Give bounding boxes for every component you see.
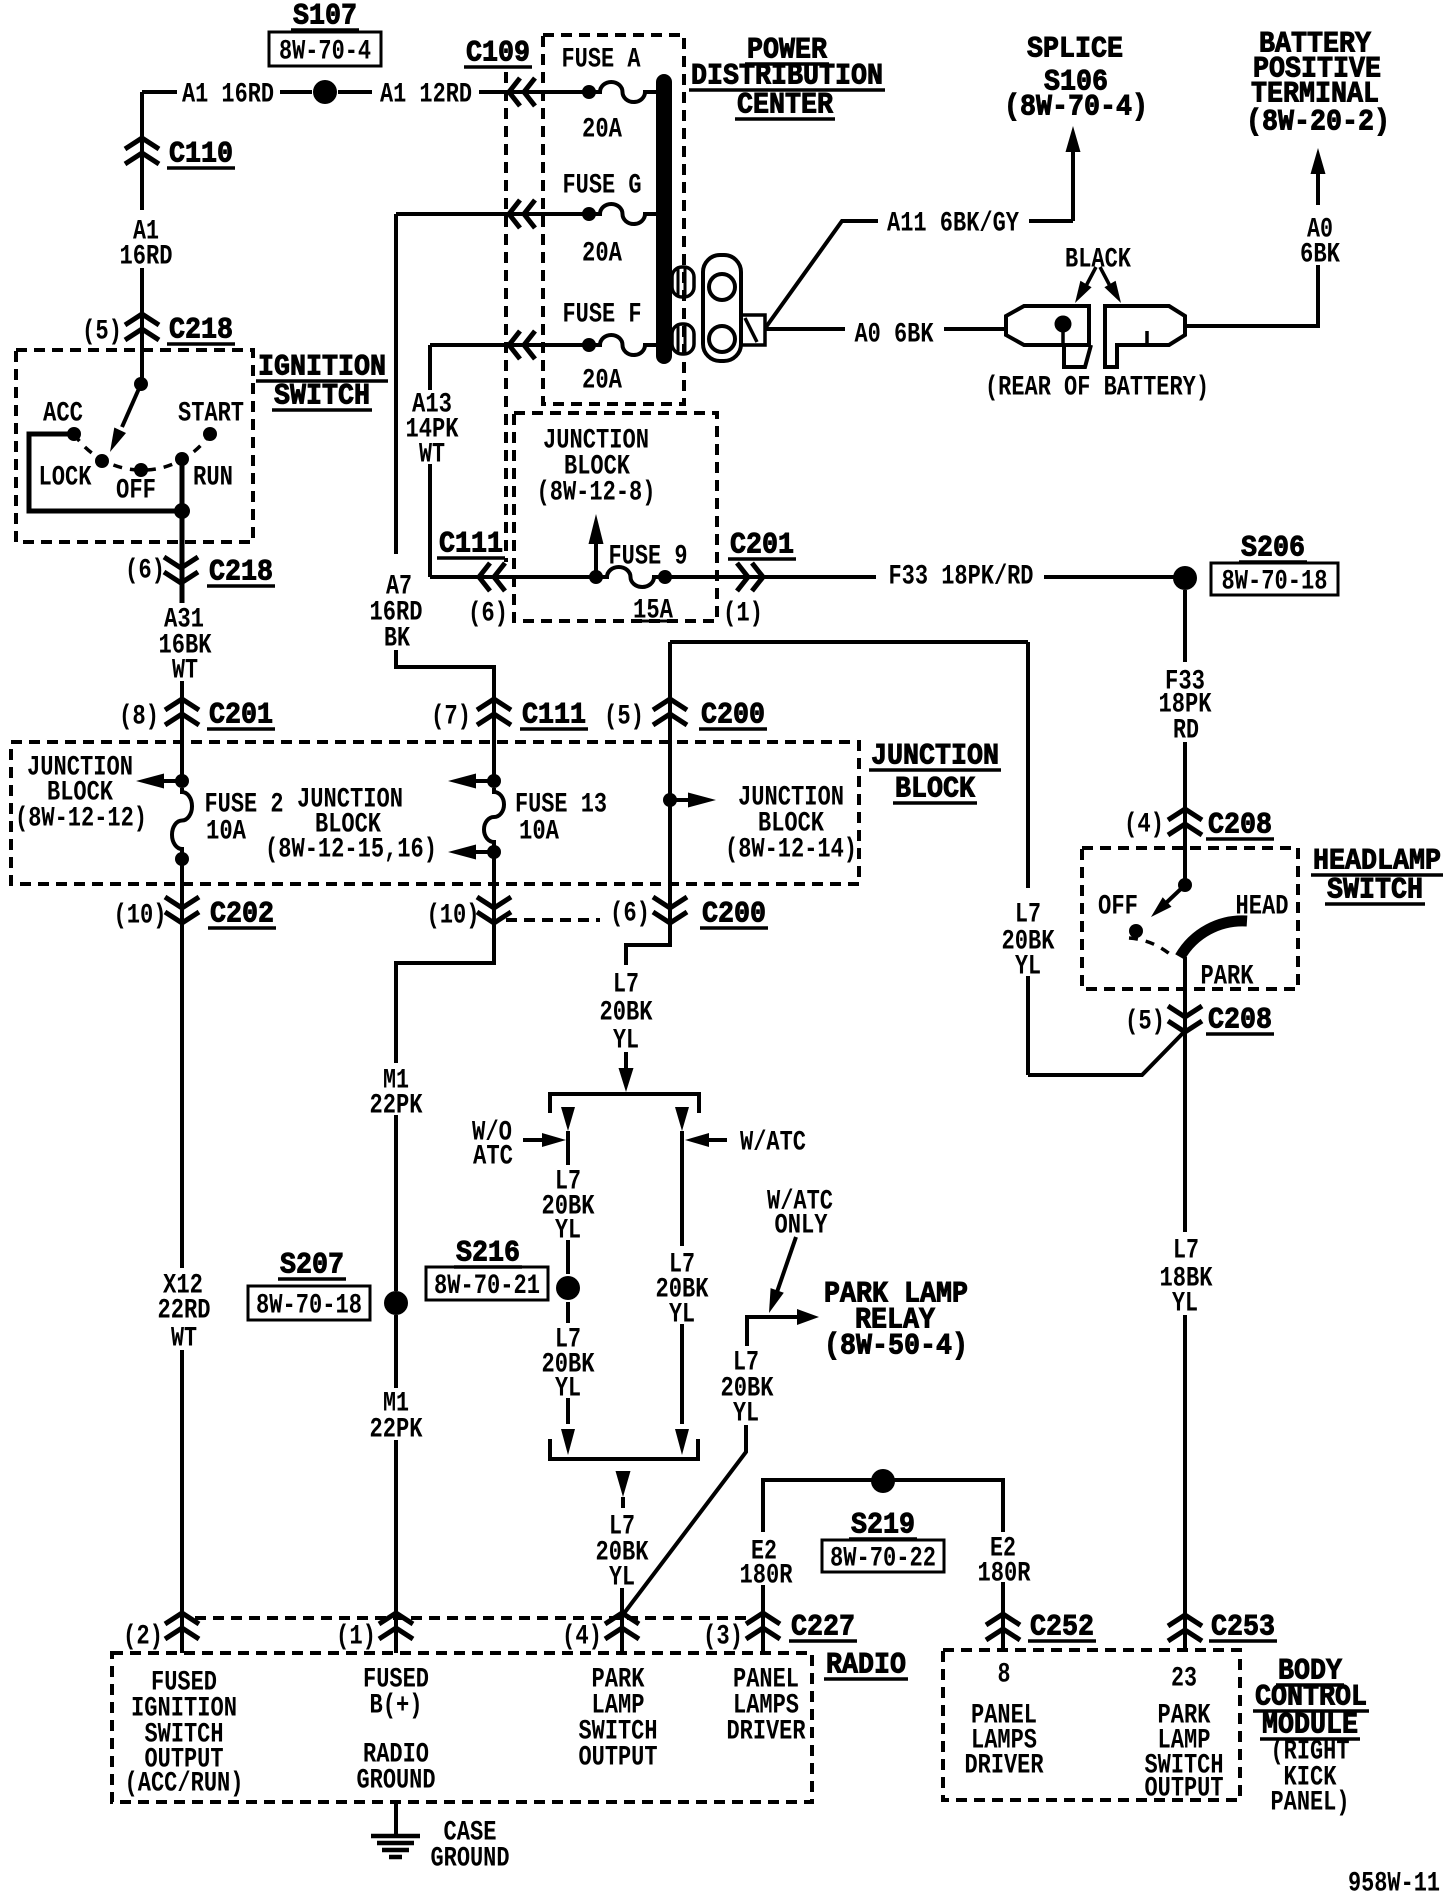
connector C200 pin 5 number [604,702,644,733]
svg-text:8W-70-4: 8W-70-4 [279,37,371,68]
connector C227 pin 2 chevron [165,1613,199,1639]
connector C208 pin 5 chevron [1168,1006,1202,1032]
PDC terminal stud upper [672,267,694,297]
wire A1 12RD [338,90,589,94]
svg-text:(10): (10) [427,901,480,932]
fuse G rating [582,239,622,270]
svg-text:L7: L7 [1173,1236,1199,1267]
wire A7 fuse G row [396,212,589,216]
headlamp switch box [1082,848,1298,989]
connector C200 pin 5 chevron [653,699,687,725]
svg-text:(10): (10) [114,901,167,932]
connector C111 label mid [520,698,588,732]
svg-text:(8W-12-12): (8W-12-12) [15,804,147,835]
ignition switch pivot [134,377,148,391]
svg-text:22RD: 22RD [158,1296,211,1327]
connector row boundary [506,918,600,922]
ATC split bracket top [550,1094,699,1113]
battery cable lug left [1006,306,1091,367]
connector C202 number [114,901,167,932]
svg-text:F33 18PK/RD: F33 18PK/RD [889,562,1034,593]
svg-text:C110: C110 [169,137,233,171]
power distribution center box [543,35,684,404]
junction block 8W-12-8 box [514,413,717,621]
wire A1 16RD [142,90,312,94]
svg-text:RADIO: RADIO [826,1648,906,1682]
svg-text:S219: S219 [851,1508,915,1542]
wire L7 right branch label [656,1250,709,1331]
svg-text:8W-70-21: 8W-70-21 [434,1271,540,1302]
connector C208 pin 4 number [1124,810,1164,841]
wire L7 relay branch diagonal [622,1425,746,1616]
svg-text:A1 16RD: A1 16RD [182,80,274,111]
BCM pin 8 text [965,1701,1044,1782]
svg-text:DRIVER: DRIVER [965,1751,1044,1782]
node A1 16RD label [182,80,274,111]
svg-text:(1): (1) [723,599,763,630]
connector C111 pin 7 number [431,702,471,733]
radio pin3 text [727,1665,806,1748]
fuse G [582,204,656,224]
connector C111 label [437,527,505,561]
wire into fuse 13 [492,698,496,781]
body control module header [1253,1654,1369,1742]
svg-text:GROUND: GROUND [431,1844,510,1875]
ignition switch ACC text [43,399,83,430]
connector C227 label [789,1610,857,1644]
svg-text:YL: YL [1015,952,1041,983]
wire L7 18BK YL label [1160,1236,1213,1320]
headlamp switch lever [1151,885,1185,917]
svg-text:23: 23 [1171,1664,1197,1695]
wire L7 to junction block [670,642,1185,1075]
wire A13 vertical [428,345,432,577]
svg-text:BLACK: BLACK [1065,245,1131,276]
splice S219 label [849,1508,917,1542]
ignition switch RUN wire [180,459,185,511]
connector C111 pin 6 number [468,599,508,630]
svg-text:16RD: 16RD [120,242,173,273]
svg-text:(4): (4) [1124,810,1164,841]
svg-text:S207: S207 [280,1248,344,1282]
wire A13 fuse F row [430,343,589,347]
fuse 9 rating [631,596,676,627]
connector C208 label lower [1206,1003,1274,1037]
svg-text:(8W-12-15,16): (8W-12-15,16) [265,835,437,866]
svg-text:OUTPUT: OUTPUT [1145,1774,1224,1805]
svg-text:START: START [178,399,244,430]
ignition switch box [16,350,253,542]
svg-text:180R: 180R [740,1561,793,1592]
junction block header [869,739,1001,806]
svg-text:(3): (3) [703,1622,743,1653]
svg-text:20BK: 20BK [600,998,653,1029]
splice S107 reference box [269,32,381,68]
PDC cable terminal square [741,315,765,345]
BCM pin 23 number [1171,1664,1197,1695]
ignition switch RUN contact [175,452,189,466]
connector C111 pin 10 chevron [477,897,511,923]
connector C202 label [208,897,276,931]
connector C111 pin 7 chevron [477,699,511,725]
junction block 8W-12-14 tap [663,793,716,808]
svg-text:FUSE 9: FUSE 9 [609,542,688,573]
headlamp switch park-head arc [1180,921,1247,957]
connector C111 pin 10 number [427,901,480,932]
wire A0 6BK left [765,327,1007,331]
PDC cable connector plate [703,255,741,361]
radio box [112,1653,812,1802]
svg-text:(5): (5) [604,702,644,733]
wire A11 label [887,209,1019,240]
case ground text [431,1818,510,1875]
fuse 9 [589,567,672,587]
svg-text:(8W-50-4): (8W-50-4) [824,1329,968,1363]
svg-text:(1): (1) [336,1622,376,1653]
connector C227 pin 3 chevron [746,1613,780,1639]
connector C227 pin 1 number [336,1622,376,1653]
connector C201 pin 8 number [119,702,159,733]
connector C252 chevron [986,1614,1020,1640]
splice S107 label [291,0,359,33]
wire park output [1183,957,1187,1035]
svg-text:(8W-12-14): (8W-12-14) [725,835,857,866]
svg-text:FUSE A: FUSE A [562,45,641,76]
wire into headlamp switch [1183,848,1187,885]
svg-text:WT: WT [419,440,445,471]
junction block box [11,742,859,884]
connector C109 chevron fuse F [509,331,535,359]
connector C227 pin 3 number [703,1622,743,1653]
battery BLACK label [1065,245,1131,276]
connector C218 pin 5 number [82,317,122,348]
splice S106 header [1004,32,1148,124]
fuse A [582,82,656,102]
svg-text:FUSE G: FUSE G [563,171,642,202]
wire L7 18BK YL [1183,1031,1187,1648]
connector C109 chevron fuse G [509,200,535,228]
svg-text:10A: 10A [206,817,246,848]
splice S216 label [454,1236,522,1270]
wire L7 relay branch label [721,1348,774,1430]
wire L7 20BK YL right label [1002,900,1055,983]
wire A31 16BK WT [180,681,184,726]
connector C227 pin 4 chevron [605,1613,639,1639]
connector C109 chevron [509,78,535,106]
radio pin4 text [579,1665,658,1774]
sheet number [1348,1869,1440,1894]
connector C253 label [1209,1610,1277,1644]
fuse 13 feed arrow [448,774,494,789]
svg-text:(6): (6) [468,599,508,630]
park lamp relay stub [747,1309,819,1346]
fuse A rating [582,115,622,146]
wire L7 from C200 [619,935,671,1092]
fuse 2 feed arrow [136,774,182,789]
connector C208 pin 5 number [1125,1007,1165,1038]
svg-text:8W-70-18: 8W-70-18 [256,1291,362,1322]
splice S219 [871,1469,895,1493]
connector C227 pin 1 chevron [379,1613,413,1639]
svg-text:WT: WT [171,1324,197,1355]
wire X12 22RD WT [180,859,184,1653]
wire M1 label lower [370,1389,423,1446]
wire X12 label [158,1271,211,1355]
ignition switch output wire [180,511,185,603]
headlamp switch PARK text [1201,962,1254,993]
battery cable lug left bolt [1055,316,1072,346]
splice S216 reference box [426,1267,548,1302]
connector C252 label [1028,1610,1096,1644]
junction block 8W-12-15 text [265,785,437,866]
wire A0 6BK left label [855,320,934,351]
wire L7 right branch upper [680,1131,684,1246]
ignition switch header [256,350,388,413]
fuse 13 out arrow [448,845,494,860]
svg-text:(2): (2) [123,1622,163,1653]
connector C227 pin 4 number [562,1622,602,1653]
connector C111 pin 6 chevron [479,563,505,591]
connector C200 label [699,698,767,732]
svg-text:(7): (7) [431,702,471,733]
splice S106 arrow [1066,126,1081,221]
wire L7 left branch to bracket [561,1398,575,1455]
connector C200 pin 6 number [610,899,650,930]
svg-text:(4): (4) [562,1622,602,1653]
splice S206 [1173,566,1197,590]
power distribution center header [689,33,885,122]
svg-text:6BK: 6BK [1300,240,1340,271]
svg-text:W/ATC: W/ATC [740,1128,806,1159]
headlamp switch header [1311,844,1443,907]
wire into ignition switch [140,350,144,384]
wire F33 18PK/RD [665,575,1175,579]
svg-text:RD: RD [1173,716,1199,747]
wire A1 16RD label vertical [120,217,173,273]
svg-text:ATC: ATC [473,1142,513,1173]
connector C201 label right [728,528,796,562]
svg-text:PANEL): PANEL) [1271,1788,1350,1819]
svg-text:20A: 20A [582,239,622,270]
ignition switch LOCK contact [95,454,109,468]
svg-text:(8): (8) [119,702,159,733]
wire fuse9 row [430,575,596,579]
svg-text:A1 12RD: A1 12RD [380,80,472,111]
splice S107 [313,80,337,104]
svg-text:LOCK: LOCK [39,463,92,494]
connector C218 pin 5 [125,314,159,340]
case ground symbol [371,1836,420,1857]
headlamp switch pivot [1178,878,1192,892]
battery positive terminal header [1246,27,1390,139]
splice S206 reference box [1211,563,1338,598]
connector C201 pin 1 chevron [737,563,763,591]
without ATC arrow [523,1133,566,1147]
ignition switch START text [178,399,244,430]
wire F33 18PK RD vertical [1183,590,1187,848]
ignition switch output junction [174,503,190,519]
wire L7 right branch lower [675,1324,689,1455]
wire M1 22PK upper [396,852,494,1291]
svg-text:OFF: OFF [116,476,156,507]
svg-text:(5): (5) [1125,1007,1165,1038]
radio pin2 text [125,1668,244,1800]
ignition switch ACC contact [67,427,81,441]
connector C110 [125,138,159,164]
svg-text:C253: C253 [1211,1610,1275,1644]
splice S219 reference box [822,1540,944,1575]
junction block 8W-12-12 text [15,753,147,835]
junction block 8W-12-8 feed arrow [589,514,604,577]
battery cable lug right tick [1145,331,1149,345]
park lamp relay label [824,1277,968,1363]
battery cable lug right [1105,306,1185,367]
svg-text:CENTER: CENTER [737,88,833,122]
svg-text:A0 6BK: A0 6BK [855,320,934,351]
connector C109 boundary [504,72,508,562]
connector C208 pin 4 chevron [1168,809,1202,835]
svg-text:958W-11: 958W-11 [1348,1869,1440,1894]
ignition switch RUN text [193,463,233,494]
connector C218 label lower [207,555,275,589]
splice S207 [384,1291,408,1315]
wire E2 left label [740,1537,793,1592]
splice S207 label [278,1248,346,1282]
ignition switch detent arc [74,434,210,470]
wire A7 label [370,572,423,655]
ignition switch ACC wire [29,434,182,511]
wire A0 6BK right [1186,265,1318,326]
wire A13 label [406,390,459,471]
wire A7 vertical [396,214,494,726]
branch arrow right [675,1107,689,1131]
svg-text:20A: 20A [582,115,622,146]
wire F33 label horizontal [889,562,1034,593]
branch arrow left [561,1107,575,1131]
fuse 13 rating [519,817,559,848]
connector C218 label upper [167,313,235,347]
svg-text:(REAR OF BATTERY): (REAR OF BATTERY) [985,373,1209,404]
fuse F label [563,300,642,331]
headlamp switch OFF text [1098,892,1138,923]
connector C218 pin 6 [164,557,198,583]
svg-text:C208: C208 [1208,1003,1272,1037]
svg-text:(5): (5) [82,317,122,348]
body control module box [943,1650,1240,1800]
wire M1 label upper [370,1066,423,1122]
connector C208 label upper [1206,808,1274,842]
BCM pin 8 number [998,1660,1011,1691]
body control module location [1271,1737,1350,1819]
connector C227 row boundary [195,1616,748,1620]
svg-text:22PK: 22PK [370,1091,423,1122]
headlamp switch detent arc dashed [1129,938,1172,956]
case ground stem [394,1802,398,1834]
fuse 13 [484,774,504,859]
connector C110 label [167,137,235,171]
fuse 9 label [609,542,688,573]
svg-text:YL: YL [1172,1289,1198,1320]
svg-text:20A: 20A [582,366,622,397]
svg-text:BK: BK [384,624,410,655]
svg-text:YL: YL [609,1563,635,1594]
wire E2 left lower [761,1585,765,1653]
wire into fuse 2 [180,698,184,781]
wire L7 left branch upper [566,1131,570,1165]
wire L7 left branch lower [566,1302,570,1323]
BCM pin 23 text [1145,1701,1224,1805]
svg-text:ACC: ACC [43,399,83,430]
svg-text:(ACC/RUN): (ACC/RUN) [125,1769,244,1800]
ignition switch START contact [203,427,217,441]
connector C253 chevron [1168,1615,1202,1641]
svg-text:10A: 10A [519,817,559,848]
without ATC note [472,1118,513,1173]
fuse F [582,335,656,355]
radio header [824,1648,908,1682]
wire A11 6BK/GY [766,221,1073,327]
svg-text:SPLICE: SPLICE [1027,32,1123,66]
wire L7 output [622,1497,623,1653]
splice S216 [556,1276,580,1300]
connector C202 chevron [165,897,199,923]
battery terminal arrow [1311,148,1326,205]
wire M1 22PK lower [394,1315,398,1653]
svg-text:OFF: OFF [1098,892,1138,923]
svg-text:OUTPUT: OUTPUT [579,1743,658,1774]
svg-text:YL: YL [613,1026,639,1057]
svg-text:(8W-20-2): (8W-20-2) [1246,105,1390,139]
headlamp switch OFF contact [1129,924,1143,938]
svg-text:(6): (6) [610,899,650,930]
wire L7 left branch label 1 [542,1167,595,1247]
svg-text:GROUND: GROUND [357,1766,436,1797]
svg-text:C252: C252 [1030,1610,1094,1644]
wire F33 label [1159,667,1212,747]
wire E2 right lower [1001,1582,1005,1650]
with ATC note [740,1128,806,1159]
connector C227 pin 2 number [123,1622,163,1653]
fuse 2 label [205,790,284,821]
wire E2 splice run [763,1480,1003,1532]
radio ground text [357,1740,436,1797]
fuse 2 rating [206,817,246,848]
connector C201 label [207,698,275,732]
svg-text:DRIVER: DRIVER [727,1717,806,1748]
fuse 13 label [515,790,607,821]
ATC merge bracket bottom [550,1439,698,1459]
connector C200 label lower [700,897,768,931]
svg-text:22PK: 22PK [370,1415,423,1446]
wire A0 6BK right label [1300,215,1340,271]
fuse F rating [582,366,622,397]
splice S206 label [1239,531,1307,565]
fuse G label [563,171,642,202]
battery BLACK arrows [1075,267,1121,303]
svg-text:L7: L7 [613,970,639,1001]
connector C201 pin 1 number [723,599,763,630]
svg-text:RUN: RUN [193,463,233,494]
wire C200 in block [668,698,672,945]
with ATC only arrow [769,1237,796,1313]
fuse A label [562,45,641,76]
svg-text:B(+): B(+) [370,1691,423,1722]
wire L7 label from C200 [600,970,653,1057]
ignition switch LOCK text [39,463,92,494]
wire L7 left branch label 2 [542,1325,595,1405]
svg-text:8W-70-22: 8W-70-22 [830,1544,936,1575]
wire L7 output label [596,1512,649,1594]
